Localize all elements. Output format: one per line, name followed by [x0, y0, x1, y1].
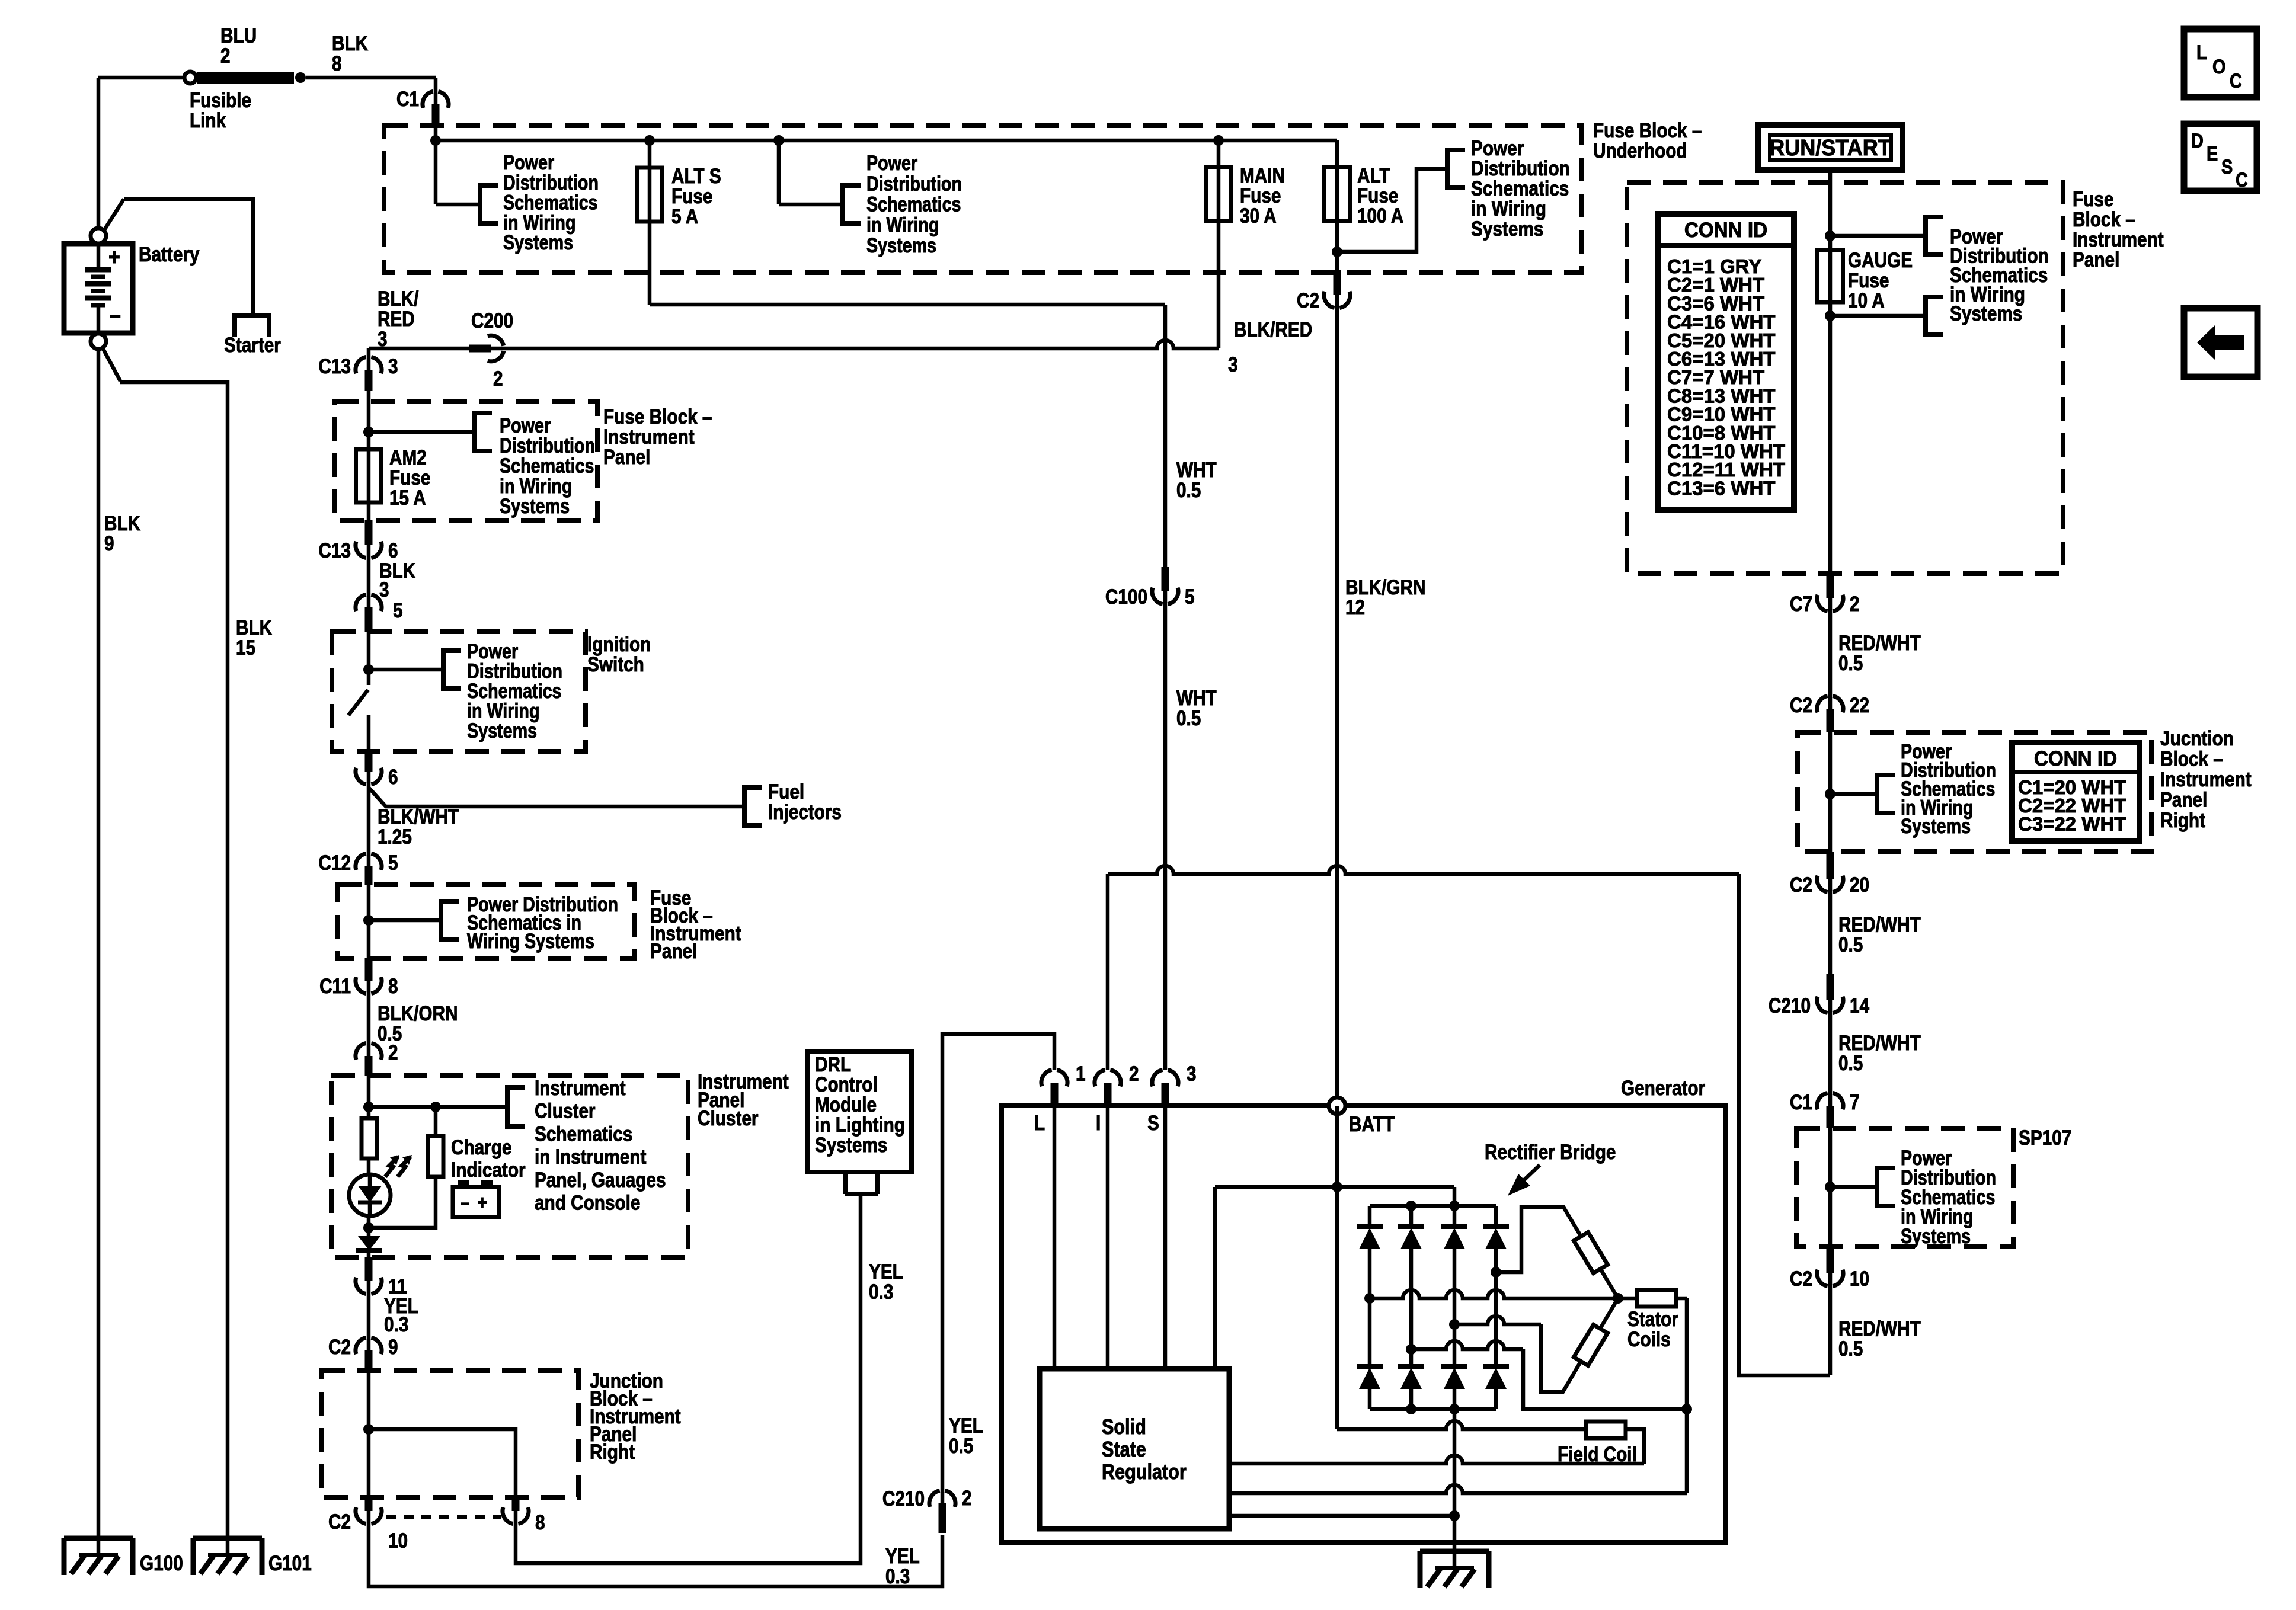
svg-text:C2: C2 [1790, 1267, 1812, 1291]
svg-text:YEL: YEL [949, 1414, 983, 1438]
svg-text:0.3: 0.3 [885, 1565, 910, 1588]
svg-text:100 A: 100 A [1357, 204, 1403, 228]
svg-text:10: 10 [388, 1529, 408, 1553]
svg-text:BLK/GRN: BLK/GRN [1345, 576, 1425, 599]
svg-text:MAIN: MAIN [1240, 164, 1285, 187]
svg-text:WHT: WHT [1176, 459, 1217, 482]
svg-text:3: 3 [1228, 353, 1238, 376]
svg-text:Fuse: Fuse [671, 185, 712, 208]
svg-text:Systems: Systems [500, 494, 570, 517]
svg-text:BLU: BLU [220, 24, 257, 47]
svg-text:8: 8 [388, 975, 398, 998]
svg-text:10 A: 10 A [1848, 289, 1885, 312]
svg-text:0.5: 0.5 [1176, 479, 1201, 502]
svg-text:I: I [1096, 1112, 1101, 1135]
svg-text:14: 14 [1850, 994, 1869, 1017]
svg-text:Underhood: Underhood [1593, 139, 1687, 162]
svg-text:–: – [110, 301, 121, 328]
svg-text:ALT: ALT [1357, 164, 1390, 187]
svg-text:Fuse: Fuse [1357, 184, 1398, 207]
svg-text:Injectors: Injectors [768, 801, 842, 824]
svg-text:Power: Power [866, 151, 917, 174]
svg-text:Indicator: Indicator [451, 1158, 526, 1182]
svg-text:C210: C210 [882, 1487, 925, 1510]
svg-text:Module: Module [815, 1093, 877, 1116]
svg-text:Instrument: Instrument [2160, 768, 2252, 791]
svg-text:1: 1 [1076, 1062, 1086, 1086]
svg-text:SP107: SP107 [2019, 1126, 2071, 1150]
svg-text:10: 10 [1850, 1267, 1869, 1291]
svg-text:Right: Right [2160, 809, 2205, 832]
svg-text:C1: C1 [1790, 1091, 1812, 1114]
svg-text:Systems: Systems [1901, 1224, 1971, 1247]
svg-text:Distribution: Distribution [866, 172, 962, 195]
svg-text:L: L [2196, 41, 2207, 64]
svg-text:WHT: WHT [1176, 687, 1217, 710]
svg-text:Solid: Solid [1102, 1416, 1146, 1439]
svg-text:15 A: 15 A [389, 486, 426, 510]
svg-text:E: E [2207, 142, 2218, 165]
svg-text:and Console: and Console [535, 1191, 640, 1214]
svg-text:22: 22 [1850, 694, 1869, 717]
svg-text:Systems: Systems [866, 233, 936, 257]
svg-text:Generator: Generator [1621, 1077, 1705, 1100]
svg-text:Fuse: Fuse [1240, 184, 1281, 207]
svg-text:3: 3 [379, 578, 389, 601]
svg-text:Panel, Gauages: Panel, Gauages [535, 1169, 666, 1192]
svg-text:C210: C210 [1769, 994, 1811, 1017]
svg-text:8: 8 [332, 52, 342, 75]
svg-text:BATT: BATT [1349, 1113, 1395, 1136]
svg-text:3: 3 [378, 328, 388, 351]
svg-text:30 A: 30 A [1240, 204, 1277, 228]
svg-text:RUN/START: RUN/START [1769, 135, 1891, 160]
svg-text:Right: Right [590, 1441, 635, 1464]
svg-text:RED/WHT: RED/WHT [1838, 1317, 1921, 1340]
svg-text:Systems: Systems [1471, 217, 1543, 241]
svg-text:Cluster: Cluster [535, 1099, 596, 1122]
svg-text:2: 2 [1129, 1062, 1139, 1086]
svg-text:Distribution: Distribution [1471, 157, 1570, 180]
svg-text:Block –: Block – [2073, 208, 2135, 231]
svg-text:0.5: 0.5 [949, 1435, 973, 1458]
svg-text:BLK: BLK [104, 512, 141, 535]
svg-text:Instrument: Instrument [603, 425, 695, 449]
svg-text:2: 2 [1850, 593, 1860, 616]
svg-text:7: 7 [1850, 1091, 1860, 1114]
svg-text:RED/WHT: RED/WHT [1838, 913, 1921, 936]
svg-text:Schematics: Schematics [1471, 177, 1569, 200]
svg-text:1.25: 1.25 [378, 825, 412, 849]
svg-text:0.3: 0.3 [869, 1281, 893, 1304]
svg-text:DRL: DRL [815, 1053, 851, 1076]
svg-text:Systems: Systems [503, 231, 573, 254]
svg-text:Charge: Charge [451, 1136, 511, 1159]
svg-text:0.5: 0.5 [1838, 1337, 1863, 1361]
svg-text:S: S [2221, 155, 2233, 178]
svg-text:0.5: 0.5 [1176, 707, 1201, 730]
svg-text:in Wiring: in Wiring [866, 213, 939, 236]
svg-text:+: + [108, 243, 120, 270]
svg-text:Ignition: Ignition [587, 633, 651, 656]
svg-text:C11: C11 [319, 975, 351, 998]
svg-text:Fuel: Fuel [768, 780, 804, 804]
svg-text:Panel: Panel [2160, 788, 2207, 811]
svg-text:C: C [2230, 69, 2242, 92]
svg-text:5: 5 [1185, 585, 1195, 609]
svg-text:in Lighting: in Lighting [815, 1113, 905, 1137]
svg-text:C2: C2 [1297, 289, 1319, 312]
svg-text:+: + [478, 1192, 487, 1214]
svg-text:ALT S: ALT S [671, 165, 721, 188]
svg-text:D: D [2191, 129, 2204, 152]
svg-text:Jucntion: Jucntion [2160, 727, 2234, 750]
svg-text:0.5: 0.5 [1838, 933, 1863, 956]
svg-text:–: – [461, 1192, 469, 1214]
svg-text:8: 8 [535, 1511, 545, 1534]
svg-text:9: 9 [388, 1336, 398, 1359]
svg-text:9: 9 [104, 532, 114, 555]
svg-text:15: 15 [236, 636, 255, 660]
svg-text:Rectifier Bridge: Rectifier Bridge [1485, 1141, 1616, 1164]
svg-text:BLK/RED: BLK/RED [1234, 318, 1312, 341]
svg-text:C2: C2 [1790, 694, 1812, 717]
svg-text:C200: C200 [471, 309, 513, 332]
svg-text:RED: RED [378, 308, 415, 331]
svg-text:C100: C100 [1105, 585, 1147, 609]
svg-text:Battery: Battery [139, 243, 199, 266]
svg-text:G101: G101 [268, 1552, 312, 1575]
svg-text:Systems: Systems [1950, 302, 2022, 325]
svg-text:Link: Link [190, 109, 226, 132]
svg-text:Instrument: Instrument [2073, 228, 2164, 251]
svg-text:5: 5 [393, 599, 403, 622]
svg-text:2: 2 [388, 1041, 398, 1064]
svg-text:O: O [2212, 55, 2225, 78]
svg-text:S: S [1147, 1112, 1159, 1135]
svg-text:C3=22 WHT: C3=22 WHT [2018, 813, 2126, 835]
svg-text:in Wiring: in Wiring [1471, 197, 1546, 220]
svg-text:CONN ID: CONN ID [2034, 747, 2117, 770]
svg-text:Control: Control [815, 1073, 878, 1096]
svg-text:2: 2 [220, 44, 231, 68]
svg-text:Instrument: Instrument [535, 1077, 626, 1100]
svg-text:3: 3 [1187, 1062, 1197, 1086]
svg-text:AM2: AM2 [389, 446, 427, 469]
svg-text:L: L [1034, 1112, 1045, 1135]
svg-text:BLK: BLK [332, 32, 369, 55]
svg-text:Starter: Starter [224, 334, 281, 357]
svg-text:Panel: Panel [650, 940, 697, 963]
svg-text:5: 5 [388, 852, 398, 875]
svg-text:Fuse: Fuse [389, 466, 430, 489]
svg-text:BLK/: BLK/ [378, 287, 418, 311]
svg-text:Systems: Systems [1901, 814, 1971, 837]
svg-text:C2: C2 [328, 1336, 351, 1359]
svg-text:in Instrument: in Instrument [535, 1145, 647, 1169]
svg-text:2: 2 [493, 367, 503, 391]
svg-text:YEL: YEL [885, 1545, 920, 1568]
svg-text:0.5: 0.5 [1838, 652, 1863, 675]
svg-text:Fuse: Fuse [2073, 188, 2113, 211]
svg-text:12: 12 [1345, 596, 1365, 619]
svg-text:Fuse: Fuse [1848, 269, 1889, 292]
svg-text:C2: C2 [1790, 873, 1812, 897]
svg-text:6: 6 [388, 766, 398, 789]
svg-text:Switch: Switch [587, 653, 644, 676]
svg-text:Block –: Block – [2160, 747, 2223, 770]
svg-text:Panel: Panel [2073, 248, 2119, 271]
svg-text:Cluster: Cluster [698, 1107, 759, 1130]
svg-text:YEL: YEL [869, 1260, 903, 1283]
svg-text:6: 6 [388, 539, 398, 562]
svg-text:C2: C2 [328, 1510, 351, 1534]
svg-text:Schematics: Schematics [535, 1122, 632, 1145]
svg-text:Regulator: Regulator [1102, 1461, 1187, 1484]
svg-text:CONN ID: CONN ID [1684, 219, 1767, 242]
svg-text:Fuse Block –: Fuse Block – [1593, 119, 1702, 142]
svg-text:State: State [1102, 1438, 1146, 1462]
svg-text:20: 20 [1850, 873, 1869, 897]
svg-text:RED/WHT: RED/WHT [1838, 1032, 1921, 1055]
svg-text:Power: Power [1471, 137, 1524, 160]
svg-text:C7: C7 [1790, 593, 1812, 616]
svg-text:Coils: Coils [1627, 1328, 1671, 1351]
svg-text:C13=6 WHT: C13=6 WHT [1667, 477, 1775, 499]
svg-text:BLK/WHT: BLK/WHT [378, 805, 459, 828]
svg-text:C13: C13 [318, 539, 351, 562]
svg-text:Wiring Systems: Wiring Systems [467, 929, 594, 952]
svg-text:C13: C13 [318, 355, 351, 378]
svg-text:RED/WHT: RED/WHT [1838, 632, 1921, 655]
svg-text:BLK/ORN: BLK/ORN [378, 1002, 458, 1025]
svg-text:Fusible: Fusible [190, 89, 251, 112]
svg-text:Schematics: Schematics [866, 193, 961, 216]
svg-text:Field Coil: Field Coil [1558, 1443, 1637, 1466]
svg-text:G100: G100 [140, 1552, 183, 1575]
svg-text:Panel: Panel [603, 446, 650, 469]
svg-text:Systems: Systems [467, 719, 537, 742]
svg-text:Fuse Block –: Fuse Block – [603, 405, 712, 428]
svg-text:Stator: Stator [1627, 1308, 1678, 1331]
svg-text:2: 2 [962, 1487, 972, 1510]
svg-text:Systems: Systems [815, 1134, 887, 1157]
svg-text:C12: C12 [318, 852, 351, 875]
svg-text:C1: C1 [396, 88, 419, 111]
svg-text:C: C [2236, 168, 2248, 191]
svg-text:5 A: 5 A [671, 205, 698, 228]
svg-text:GAUGE: GAUGE [1848, 249, 1913, 272]
svg-text:0.5: 0.5 [1838, 1052, 1863, 1075]
svg-text:3: 3 [388, 355, 398, 378]
svg-text:BLK: BLK [236, 616, 273, 639]
svg-text:0.3: 0.3 [384, 1313, 408, 1336]
